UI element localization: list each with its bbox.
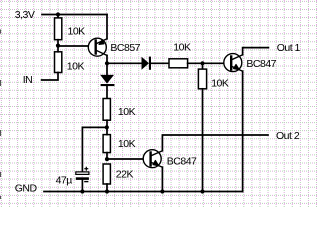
wire Q3 emitter to rail xyxy=(161,167,163,191)
wire R4 bottom lead xyxy=(106,120,108,127)
wire Q1 emitter to rail xyxy=(106,15,108,39)
wire Q2 emitter to rail xyxy=(242,71,244,191)
wire R1 bottom lead xyxy=(57,40,59,46)
wire R7 bottom to ground rail xyxy=(202,89,204,192)
node junction Q3 base xyxy=(105,157,109,161)
svg-text:47µ: 47µ xyxy=(56,175,73,187)
wire R3 to Q2 base xyxy=(188,62,231,64)
wire ground rail xyxy=(44,191,243,193)
wire R5 bottom lead xyxy=(106,153,108,160)
resistor R3 10K horizontal xyxy=(169,59,188,68)
svg-text:10K: 10K xyxy=(118,106,136,118)
wire Q1 collector down xyxy=(106,55,108,63)
resistor R6 22K xyxy=(103,164,110,184)
wire Q3 collector to Out2 xyxy=(162,135,268,151)
node junction R7 top xyxy=(200,61,204,65)
diode D2 vertical xyxy=(100,63,114,86)
svg-text:3,3V: 3,3V xyxy=(15,9,35,21)
transistor Q3 BC847 NPN bottom xyxy=(143,150,162,168)
wire Q2 collector to Out1 xyxy=(243,48,269,55)
wire R6 to rail xyxy=(106,184,108,192)
transistor Q1 BC857 PNP xyxy=(88,38,107,56)
resistor R5 10K xyxy=(103,135,110,153)
resistor R2 10K xyxy=(55,52,62,73)
wire D2 to R4 xyxy=(106,86,108,98)
svg-text:BC847: BC847 xyxy=(167,155,197,167)
svg-text:10K: 10K xyxy=(118,138,136,150)
diode D1 xyxy=(142,57,152,70)
svg-text:BC847: BC847 xyxy=(246,58,276,70)
wire IN input xyxy=(42,73,58,81)
wire 3.3V rail xyxy=(42,14,107,16)
node junction on 3.3V rail xyxy=(56,12,60,16)
wire collector node to D1 xyxy=(107,62,142,64)
left edge marks xyxy=(0,30,2,200)
svg-text:Out 1: Out 1 xyxy=(277,42,301,54)
svg-text:10K: 10K xyxy=(173,41,191,53)
node collector junction Q1 xyxy=(105,61,109,65)
resistor R7 10K xyxy=(198,69,206,89)
wire to capacitor xyxy=(82,127,106,171)
node rail junction R7 xyxy=(200,189,204,193)
node rail junction R6 xyxy=(105,189,109,193)
wire R7 top lead xyxy=(202,63,204,69)
wire R2 top lead xyxy=(57,46,59,52)
resistor R1 10K xyxy=(55,18,62,40)
transistor Q2 BC847 NPN top xyxy=(224,54,243,72)
node rail junction C1 xyxy=(80,189,84,193)
svg-text:10K: 10K xyxy=(67,61,85,73)
node junction cap branch xyxy=(105,125,109,129)
svg-text:IN: IN xyxy=(23,74,33,86)
node base junction Q1 xyxy=(56,44,60,48)
svg-text:BC857: BC857 xyxy=(110,42,140,54)
svg-text:22K: 22K xyxy=(116,169,134,181)
wire R1 top lead xyxy=(57,15,59,18)
svg-text:10K: 10K xyxy=(68,25,86,37)
resistor R4 10K xyxy=(103,99,110,121)
wire C1 to rail xyxy=(81,180,83,192)
svg-text:Out 2: Out 2 xyxy=(276,130,300,142)
svg-text:GND: GND xyxy=(15,182,38,194)
wire R5 top lead xyxy=(106,127,108,134)
svg-text:10K: 10K xyxy=(211,78,229,90)
capacitor C1 47u xyxy=(76,167,89,181)
wire base of Q1 xyxy=(58,45,95,47)
wire D1 to R3 xyxy=(151,62,169,64)
node rail junction Q3 emitter xyxy=(160,189,164,193)
wire to Q3 base xyxy=(107,158,149,160)
